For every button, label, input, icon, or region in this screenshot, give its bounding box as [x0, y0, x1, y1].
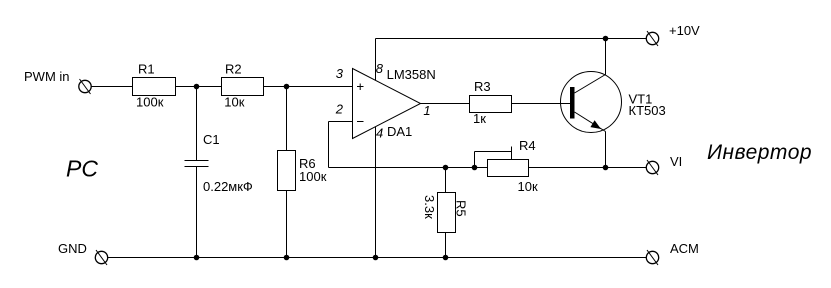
wire feedback down	[328, 122, 330, 168]
wire R6 to GND line	[286, 191, 288, 258]
junction C1 to GND line	[194, 255, 199, 260]
wire pin 4 down to GND line	[375, 127, 377, 258]
node F junction R4 wiper	[472, 165, 477, 170]
wire R5 to GND line	[445, 233, 447, 258]
svg-text:R3: R3	[474, 79, 491, 94]
terminal GND	[95, 250, 107, 265]
terminal +10V	[646, 31, 658, 46]
resistor R1	[133, 78, 176, 96]
wire emitter to VI line	[605, 132, 607, 168]
svg-text:ACM: ACM	[670, 241, 699, 256]
svg-text:Инвертор: Инвертор	[707, 141, 812, 164]
node C junction collector to rail	[603, 36, 608, 41]
svg-text:10к: 10к	[518, 179, 538, 194]
svg-text:100к: 100к	[299, 169, 327, 184]
resistor R5	[438, 193, 456, 233]
node D junction emitter to VI line	[603, 165, 608, 170]
svg-text:LM358N: LM358N	[387, 67, 436, 82]
svg-text:R5: R5	[453, 200, 468, 217]
op-amp U1 DA1	[353, 69, 421, 139]
terminal PWM in	[79, 79, 91, 94]
svg-text:PWM in: PWM in	[24, 69, 70, 84]
wire R1 to node A	[176, 86, 222, 88]
svg-text:0.22мкФ: 0.22мкФ	[203, 179, 253, 194]
svg-text:+10V: +10V	[669, 23, 700, 38]
svg-text:PC: PC	[66, 156, 98, 182]
wire feedback to R4	[329, 167, 488, 169]
node B junction	[284, 84, 289, 89]
svg-text:10к: 10к	[224, 95, 244, 110]
resistor R6	[278, 151, 296, 191]
svg-text:КТ503: КТ503	[629, 103, 666, 118]
wire R3 to transistor base	[512, 103, 571, 105]
svg-text:DA1: DA1	[387, 124, 412, 139]
wire R2 to node B and op-amp +input	[264, 86, 353, 88]
wire node B down to R6	[286, 87, 288, 151]
svg-text:100к: 100к	[136, 95, 164, 110]
node A junction	[194, 84, 199, 89]
wire R4 to VI terminal	[529, 167, 647, 169]
terminal ACM	[646, 250, 658, 265]
svg-text:8: 8	[376, 61, 384, 76]
svg-text:R1: R1	[138, 62, 155, 77]
terminal VI	[646, 160, 658, 175]
svg-text:4: 4	[376, 126, 383, 141]
svg-text:R2: R2	[225, 62, 242, 77]
resistor R2	[222, 78, 264, 96]
svg-text:1к: 1к	[473, 111, 486, 126]
svg-text:VI: VI	[670, 154, 682, 169]
wire PWM terminal to R1	[91, 86, 132, 88]
resistor R3	[470, 96, 512, 113]
R4 wiper link	[475, 147, 512, 168]
capacitor C1	[185, 161, 209, 167]
wire node A down to C1	[196, 87, 198, 161]
junction R6 to GND line	[284, 255, 289, 260]
wire +10V rail	[376, 38, 647, 40]
svg-text:R4: R4	[519, 138, 536, 153]
wire collector to +10V rail	[605, 39, 607, 75]
svg-text:3.3к: 3.3к	[422, 195, 437, 219]
wire -input feedback left	[329, 121, 353, 123]
svg-text:GND: GND	[58, 241, 87, 256]
resistor R4 trimmer	[488, 160, 529, 177]
svg-text:C1: C1	[203, 132, 220, 147]
wire node E down to R5	[445, 168, 447, 193]
junction pin4 to GND line	[373, 255, 378, 260]
svg-text:1: 1	[423, 103, 430, 118]
svg-text:3: 3	[336, 66, 344, 81]
wire C1 to GND line	[196, 167, 198, 258]
transistor VT1	[561, 72, 622, 133]
node E junction R5 top	[443, 165, 448, 170]
junction R5 to GND line	[443, 255, 448, 260]
wire pin 8 up to +10V rail	[375, 39, 377, 81]
svg-text:2: 2	[335, 102, 344, 117]
wire op-amp output to R3	[421, 103, 470, 105]
wire GND line	[108, 257, 647, 259]
